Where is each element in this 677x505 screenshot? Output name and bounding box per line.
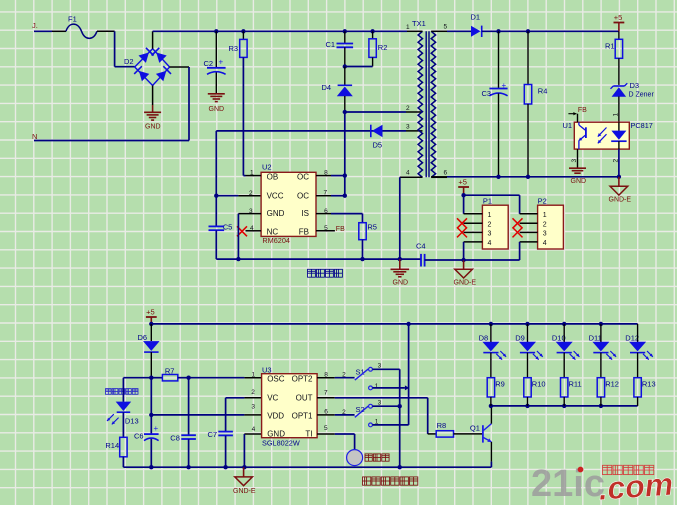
LED D12 (625, 324, 653, 378)
junction D6 R7 node (149, 376, 153, 380)
connector P1 (464, 197, 509, 250)
svg-text:R1: R1 (605, 42, 615, 51)
svg-text:3: 3 (378, 399, 382, 406)
switch S1 (335, 363, 409, 391)
svg-text:21ic: 21ic (531, 463, 605, 505)
svg-text:VCC: VCC (267, 191, 284, 200)
ground GND bridge (144, 86, 161, 131)
resistor R10 (524, 378, 546, 406)
svg-text:3: 3 (488, 230, 492, 237)
svg-text:OPT2: OPT2 (292, 375, 313, 384)
wire U3 GND pin 4 (244, 434, 261, 467)
svg-text:GND: GND (145, 124, 161, 131)
svg-text:FB: FB (578, 107, 587, 114)
wire TX1 pin 4 to primary ground rail (399, 177, 401, 259)
power +5 dimmer (146, 307, 157, 326)
diode D6 (138, 324, 160, 378)
svg-text:1: 1 (612, 113, 619, 117)
ground GND-E U1 (609, 177, 632, 204)
svg-text:C3: C3 (482, 89, 492, 98)
capacitor C3 (482, 31, 508, 177)
svg-text:D9: D9 (515, 333, 525, 342)
resistor R1 (605, 31, 623, 85)
svg-text:GND: GND (209, 106, 225, 113)
svg-text:TI: TI (305, 430, 312, 439)
junction dots secondary top rail (496, 29, 530, 33)
switch S2 (335, 399, 409, 427)
svg-text:2: 2 (406, 105, 410, 112)
svg-text:+5: +5 (146, 307, 155, 316)
wire P1 pin 4 to GND-E (463, 242, 465, 260)
svg-text:R9: R9 (495, 379, 505, 388)
diode D1 (447, 13, 619, 38)
svg-text:R10: R10 (532, 379, 546, 388)
svg-text:4: 4 (252, 426, 256, 433)
svg-text:FB: FB (336, 226, 345, 233)
svg-text:6: 6 (444, 170, 448, 177)
svg-text:C6: C6 (134, 432, 144, 441)
transistor Q1 (470, 406, 492, 467)
resistor R11 (561, 378, 582, 406)
svg-text:D13: D13 (125, 417, 139, 426)
wire U2 GND to primary rail (236, 214, 240, 262)
wire P2 pin 4 to GND-E (464, 242, 520, 260)
junction C1 R2 (343, 64, 347, 68)
svg-text:OSC: OSC (267, 375, 285, 384)
svg-text:VC: VC (267, 394, 278, 403)
resistor R7 (151, 367, 188, 381)
capacitor C4 (416, 242, 464, 267)
wire dimmer ground rail (123, 465, 491, 469)
transformer TX1 (400, 19, 448, 177)
svg-text:OUT: OUT (296, 394, 313, 403)
capacitor C6 (134, 378, 159, 468)
svg-text:R4: R4 (538, 87, 548, 96)
svg-text:U1: U1 (563, 121, 573, 130)
wire to indicator LED D13 (123, 377, 151, 379)
IC U2 RM6204 (238, 163, 335, 246)
svg-text:R12: R12 (605, 379, 619, 388)
svg-text:R14: R14 (105, 441, 119, 450)
ground GND C2 (208, 94, 225, 113)
wire aux winding to TX1 pin 2 (345, 111, 423, 113)
svg-text:GND-E: GND-E (233, 488, 256, 495)
svg-text:GND-E: GND-E (609, 197, 632, 204)
svg-text:R3: R3 (229, 44, 239, 53)
wire L input to fuse (34, 30, 66, 32)
resistor R2 (345, 31, 388, 66)
svg-text:.com: .com (597, 466, 674, 505)
LED D10 (552, 324, 580, 378)
ground GND U1 (569, 168, 586, 185)
wire U1 pin 2 to secondary rail (617, 149, 621, 179)
svg-text:+5: +5 (614, 13, 623, 22)
wire switch node to U2 OC pins (331, 112, 347, 198)
svg-text:SGL8022W: SGL8022W (262, 439, 300, 448)
LED D8 (479, 324, 507, 378)
label power indicator lamp (106, 389, 139, 395)
IC U3 SGL8022W (251, 366, 334, 448)
svg-text:TX1: TX1 (412, 19, 426, 28)
resistor R9 (487, 378, 505, 406)
diode D4 (322, 67, 353, 113)
svg-text:R2: R2 (378, 43, 388, 52)
zener diode D3 (611, 81, 655, 122)
svg-text:1: 1 (375, 383, 379, 390)
capacitor C8 (170, 378, 196, 470)
svg-text:D3: D3 (630, 81, 640, 90)
svg-text:2: 2 (488, 221, 492, 228)
wire U2 IS to R5 (331, 214, 363, 223)
power +5 for connectors (458, 177, 469, 197)
wire VDD to U3 pin 3 (151, 414, 261, 416)
wire OUT to R8 (335, 398, 436, 434)
ground GND-E dimmer (233, 467, 256, 495)
svg-text:P1: P1 (483, 197, 492, 206)
svg-text:4: 4 (488, 240, 492, 247)
svg-text:GND: GND (571, 178, 587, 185)
junction D4 switch node (343, 110, 347, 114)
capacitor C5 (209, 223, 233, 260)
svg-text:1: 1 (543, 212, 547, 219)
wire secondary return rail (431, 175, 619, 179)
svg-text:D8: D8 (479, 333, 489, 342)
net label N (32, 132, 37, 141)
svg-text:3: 3 (251, 404, 255, 411)
fuse F1 (66, 15, 97, 39)
svg-text:5: 5 (324, 425, 328, 432)
wire VCC net (214, 131, 261, 226)
svg-text:OB: OB (267, 173, 279, 182)
svg-text:+5: +5 (458, 177, 467, 186)
svg-text:C7: C7 (208, 430, 218, 439)
wire S contacts to verticals (400, 324, 409, 467)
svg-text:P2: P2 (538, 197, 547, 206)
svg-text:5: 5 (444, 24, 448, 31)
svg-text:R8: R8 (437, 421, 447, 430)
resistor R13 (634, 378, 656, 406)
LED D13 (107, 378, 139, 438)
svg-text:RM6204: RM6204 (262, 236, 290, 245)
svg-text:C4: C4 (416, 242, 426, 251)
svg-text:D6: D6 (138, 333, 148, 342)
svg-text:D11: D11 (589, 333, 602, 342)
svg-text:OPT1: OPT1 (292, 411, 313, 420)
svg-text:D2: D2 (124, 57, 134, 66)
svg-text:J.: J. (32, 21, 38, 30)
svg-text:C8: C8 (170, 434, 180, 443)
svg-text:N: N (32, 132, 37, 141)
capacitor C7 (208, 398, 262, 470)
svg-text:D4: D4 (322, 83, 332, 92)
svg-text:OC: OC (297, 191, 309, 200)
svg-text:1: 1 (252, 372, 256, 379)
svg-text:3: 3 (406, 124, 410, 131)
svg-text:GND-E: GND-E (454, 280, 477, 287)
LED D11 (589, 324, 617, 378)
svg-text:C2: C2 (204, 59, 214, 68)
power +5 secondary (614, 13, 625, 31)
no-connect X on P1 pins 2 3 (457, 218, 467, 237)
svg-text:GND: GND (393, 280, 409, 287)
net label FB at U1 (568, 107, 587, 122)
svg-text:4: 4 (406, 170, 410, 177)
wire N return (34, 67, 189, 141)
junction dots top rail (214, 29, 375, 33)
wire OSC to U3 pin 1 (189, 377, 262, 379)
svg-text:OC: OC (297, 173, 309, 182)
resistor R5 (359, 223, 377, 262)
LED D9 (515, 324, 543, 378)
resistor R8 (436, 421, 483, 437)
svg-text:4: 4 (543, 240, 547, 247)
module label touch dimmer module (363, 477, 418, 485)
wire primary ground rail (216, 257, 421, 261)
svg-text:VDD: VDD (267, 411, 284, 420)
svg-text:+: + (154, 424, 159, 433)
ground GND-E primary side (454, 258, 477, 287)
no-connect X on U2 pin 4 (237, 226, 247, 236)
svg-text:D5: D5 (373, 141, 383, 150)
ground GND primary (391, 259, 410, 286)
resistor R12 (597, 378, 619, 406)
resistor R14 (105, 437, 127, 467)
svg-text:+: + (219, 58, 224, 67)
optocoupler U1 PC817 (563, 113, 653, 163)
wire LED supply rail (151, 322, 637, 326)
svg-text:FB: FB (299, 228, 309, 237)
capacitor C1 (326, 31, 354, 66)
svg-text:7: 7 (324, 389, 328, 396)
module label power module (308, 269, 343, 277)
resistor R4 (524, 31, 547, 177)
resistor R3 (229, 31, 248, 175)
svg-text:R11: R11 (569, 379, 582, 388)
svg-text:1: 1 (488, 212, 492, 219)
svg-text:C1: C1 (326, 40, 336, 49)
svg-text:2: 2 (251, 389, 255, 396)
logo 21ic.com watermark (531, 463, 674, 505)
svg-text:GND: GND (267, 430, 285, 439)
wire LED return rail (489, 404, 638, 408)
svg-text:C5: C5 (223, 223, 233, 232)
svg-text:R13: R13 (642, 379, 656, 388)
svg-text:2: 2 (249, 190, 253, 197)
wire +5 to P2 pin 1 (464, 195, 520, 214)
diode D5 (216, 125, 422, 150)
svg-text:F1: F1 (68, 15, 77, 24)
svg-text:R5: R5 (367, 223, 377, 232)
wire bridge plus output (152, 31, 154, 48)
svg-text:D Zener: D Zener (629, 92, 655, 99)
svg-text:GND: GND (267, 209, 285, 218)
svg-text:1: 1 (406, 24, 410, 31)
connector P2 (520, 197, 564, 250)
capacitor C2 (204, 31, 226, 93)
wire U1 pin 3 to ground (577, 149, 579, 168)
svg-text:IS: IS (301, 209, 309, 218)
svg-text:2: 2 (543, 221, 547, 228)
wire +5 to P1 pin 1 (463, 195, 465, 214)
junction R7 C8 (186, 376, 190, 380)
wire AC top rail (153, 30, 407, 32)
bridge rectifier D2 (124, 48, 171, 86)
svg-text:3: 3 (543, 230, 547, 237)
net label J (32, 21, 38, 30)
net label FB at U2 pin 5 (336, 226, 345, 233)
svg-text:Q1: Q1 (470, 424, 480, 433)
svg-text:U2: U2 (262, 163, 272, 172)
wire fuse to bridge (97, 31, 135, 66)
touch pad (335, 434, 389, 466)
svg-text:D1: D1 (471, 13, 481, 22)
no-connect X on P2 pins 2 3 (513, 218, 523, 237)
svg-text:PC817: PC817 (631, 121, 653, 130)
